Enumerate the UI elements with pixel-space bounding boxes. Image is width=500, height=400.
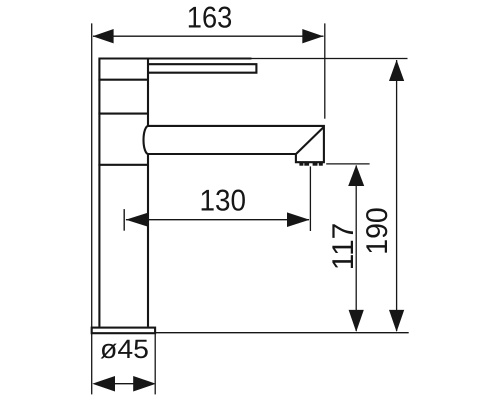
dimension 117 xyxy=(326,164,369,332)
bottom arrowhead xyxy=(349,310,364,332)
column divider 1 xyxy=(98,79,149,81)
svg-text:190: 190 xyxy=(361,207,394,255)
bottom arrowhead xyxy=(389,310,404,332)
spout xyxy=(144,126,324,162)
top arrowhead xyxy=(389,60,404,81)
column divider 3 xyxy=(98,164,149,166)
left arrowhead xyxy=(92,376,115,392)
aerator teeth xyxy=(299,162,322,165)
lever handle xyxy=(148,64,256,73)
dimension line xyxy=(355,166,357,332)
dimension 190 xyxy=(155,59,409,333)
arrow shaft xyxy=(113,383,135,385)
top arrowhead xyxy=(348,165,364,186)
right extension line xyxy=(324,23,326,118)
right arrowhead xyxy=(302,29,323,43)
left tick xyxy=(123,209,125,231)
dimension 130 xyxy=(124,166,310,231)
right arrowhead xyxy=(133,376,156,392)
dimension 163 xyxy=(92,2,325,395)
top extension line xyxy=(251,58,408,60)
dimension line xyxy=(126,219,309,221)
dimension line xyxy=(93,35,324,37)
left extension line xyxy=(91,23,93,394)
left arrowhead xyxy=(126,212,149,227)
svg-text:163: 163 xyxy=(187,2,233,35)
column divider 2 xyxy=(98,113,149,115)
left arrowhead xyxy=(93,29,114,43)
svg-text:130: 130 xyxy=(200,185,247,218)
bottom extension line xyxy=(155,332,409,334)
svg-text:ø45: ø45 xyxy=(100,334,149,364)
dimension diameter 45 xyxy=(92,333,156,394)
faucet column body xyxy=(98,58,251,327)
top extension line xyxy=(326,163,369,165)
right extension line xyxy=(309,166,311,231)
svg-text:117: 117 xyxy=(327,223,360,271)
right arrowhead xyxy=(287,212,310,227)
right extension line xyxy=(154,333,156,394)
base plate xyxy=(92,328,155,334)
dimension line xyxy=(396,60,398,331)
